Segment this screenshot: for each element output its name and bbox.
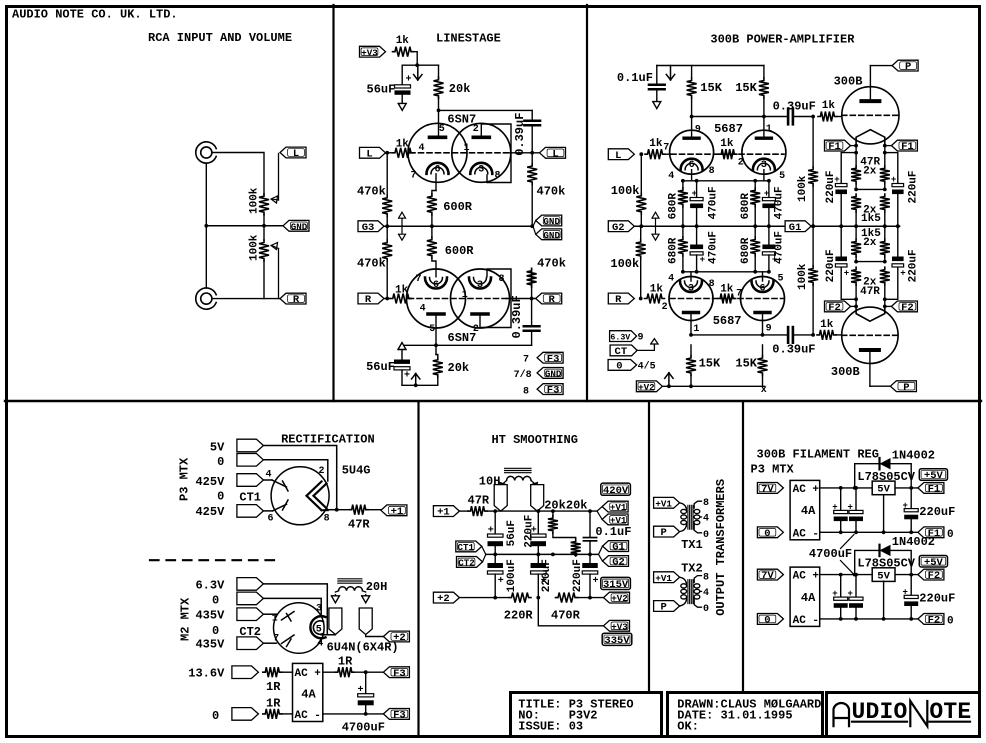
svg-text:1k: 1k [396,139,410,151]
svg-text:+V1: +V1 [655,498,672,509]
svg-text:G3: G3 [362,222,375,234]
svg-text:P: P [660,527,666,539]
svg-text:6: 6 [433,280,439,291]
svg-text:F3: F3 [393,710,406,722]
svg-text:4700uF: 4700uF [342,720,385,734]
svg-text:100k: 100k [797,175,809,202]
svg-text:220uF: 220uF [541,559,553,592]
svg-text:TX1: TX1 [681,538,703,552]
svg-text:220uF: 220uF [572,559,584,592]
svg-text:GND: GND [543,216,560,227]
svg-text:TX2: TX2 [681,562,703,576]
svg-text:1R: 1R [266,696,281,710]
svg-text:2x: 2x [863,237,877,249]
svg-text:220uF: 220uF [825,170,837,203]
svg-text:0: 0 [703,604,709,615]
svg-text:8: 8 [703,573,709,584]
svg-text:7: 7 [415,274,421,285]
svg-text:F2: F2 [828,302,841,314]
svg-text:1: 1 [693,324,699,335]
svg-text:425V: 425V [195,505,225,519]
svg-text:220uF: 220uF [524,515,536,548]
svg-text:0: 0 [212,624,219,638]
svg-text:5: 5 [777,274,783,285]
svg-text:1k: 1k [720,138,734,150]
svg-text:0: 0 [764,528,770,540]
svg-text:CT2: CT2 [458,558,475,569]
svg-text:6.3V: 6.3V [610,334,630,343]
svg-text:220uF: 220uF [919,592,955,606]
svg-text:F2: F2 [928,570,941,582]
svg-text:4/5: 4/5 [638,360,656,372]
svg-text:3: 3 [477,280,483,291]
svg-text:0: 0 [217,489,224,503]
svg-text:9: 9 [766,324,772,335]
svg-text:L: L [366,148,372,160]
svg-text:15K: 15K [699,357,721,371]
svg-text:RCA INPUT AND VOLUME: RCA INPUT AND VOLUME [148,31,292,45]
svg-text:5V: 5V [877,484,890,496]
svg-text:P: P [903,382,909,394]
svg-text:100k: 100k [610,257,639,271]
svg-text:425V: 425V [195,475,225,489]
svg-text:4A: 4A [801,504,816,518]
svg-text:7: 7 [410,171,416,182]
svg-text:R: R [293,294,300,306]
svg-text:3: 3 [478,164,484,175]
svg-text:680R: 680R [668,237,680,264]
svg-text:0.39uF: 0.39uF [510,295,524,338]
svg-text:470k: 470k [357,257,386,271]
svg-text:G1: G1 [789,222,802,234]
svg-text:20H: 20H [366,580,388,594]
svg-text:0.39uF: 0.39uF [772,343,815,357]
svg-text:100k: 100k [249,187,261,214]
svg-text:F3: F3 [547,385,560,397]
svg-text:100k: 100k [611,184,640,198]
svg-text:300B: 300B [834,75,863,89]
svg-text:4A: 4A [801,591,816,605]
svg-text:20k: 20k [566,499,588,513]
svg-text:1: 1 [766,124,772,135]
svg-text:L: L [293,148,299,160]
svg-text:2: 2 [473,124,479,135]
svg-text:4: 4 [668,274,674,285]
svg-text:5687: 5687 [714,122,743,136]
svg-text:600R: 600R [443,200,473,214]
svg-text:7V: 7V [761,570,774,582]
svg-text:8: 8 [324,514,330,525]
svg-text:4: 4 [668,171,674,182]
svg-text:0: 0 [212,709,219,723]
svg-text:LINESTAGE: LINESTAGE [436,32,501,46]
svg-text:P3 MTX: P3 MTX [178,457,192,501]
svg-text:220uF: 220uF [919,505,955,519]
svg-text:OUTPUT TRANSFORMERS: OUTPUT TRANSFORMERS [714,479,728,616]
svg-text:+: + [692,189,697,199]
svg-text:1k: 1k [649,138,663,150]
svg-text:1R: 1R [266,680,281,694]
svg-text:+5V: +5V [924,557,944,569]
svg-text:4: 4 [703,514,709,525]
svg-text:0: 0 [703,530,709,541]
svg-text:315V: 315V [603,579,629,591]
svg-text:470R: 470R [551,609,581,623]
svg-text:15K: 15K [700,81,722,95]
svg-text:L: L [552,148,558,160]
svg-text:4: 4 [265,470,271,481]
svg-text:4: 4 [317,639,323,650]
svg-text:100k: 100k [797,263,809,290]
svg-text:2x: 2x [863,166,877,178]
svg-text:ISSUE: 03: ISSUE: 03 [518,720,583,734]
svg-text:P: P [905,61,911,73]
svg-text:3: 3 [688,284,694,295]
svg-text:680R: 680R [740,237,752,264]
svg-text:F2: F2 [901,302,914,314]
svg-text:2: 2 [318,466,324,477]
svg-text:0: 0 [947,529,954,541]
svg-text:+V1: +V1 [655,573,672,584]
svg-text:435V: 435V [195,609,225,623]
svg-text:+: + [700,255,705,265]
svg-text:7: 7 [523,355,529,366]
svg-text:AC -: AC - [295,710,321,722]
svg-text:R: R [549,294,556,306]
svg-text:680R: 680R [740,193,752,220]
svg-text:4A: 4A [301,688,316,702]
svg-text:AC +: AC + [295,668,322,680]
svg-text:GND: GND [543,230,560,241]
svg-text:1k: 1k [822,100,836,112]
svg-text:5U4G: 5U4G [342,464,371,478]
svg-text:+1: +1 [391,506,404,518]
svg-text:8: 8 [498,274,504,285]
svg-text:0: 0 [616,361,622,373]
svg-text:5: 5 [779,171,785,182]
svg-text:AC +: AC + [793,571,820,583]
svg-text:1: 1 [272,614,278,625]
svg-text:F3: F3 [547,353,560,365]
svg-text:x: x [761,385,767,396]
svg-text:300B FILAMENT REG: 300B FILAMENT REG [757,448,879,462]
svg-text:15K: 15K [735,81,757,95]
svg-text:P3 MTX: P3 MTX [751,462,795,476]
svg-text:L78S05CV: L78S05CV [857,557,915,571]
svg-text:RECTIFICATION: RECTIFICATION [281,433,375,447]
svg-text:300B POWER-AMPLIFIER: 300B POWER-AMPLIFIER [710,33,855,47]
svg-text:0.1uF: 0.1uF [595,525,631,539]
svg-text:435V: 435V [195,638,225,652]
svg-text:CT1: CT1 [458,542,475,553]
svg-text:220uF: 220uF [825,249,837,282]
svg-text:+V2: +V2 [611,593,628,604]
svg-text:9: 9 [695,125,701,136]
svg-text:+2: +2 [437,593,450,605]
svg-text:7: 7 [736,289,742,300]
svg-text:5V: 5V [877,570,890,582]
svg-text:470k: 470k [537,185,566,199]
svg-text:6.3V: 6.3V [195,578,225,592]
svg-text:335V: 335V [604,635,630,647]
svg-text:470uF: 470uF [773,186,785,219]
svg-text:47R: 47R [860,286,880,298]
svg-text:56uF: 56uF [366,360,395,374]
svg-text:2: 2 [738,158,744,169]
svg-text:6U4N(6X4R): 6U4N(6X4R) [327,641,399,655]
svg-text:0.39uF: 0.39uF [513,113,527,156]
svg-text:1k: 1k [395,285,409,297]
svg-text:8: 8 [703,498,709,509]
svg-text:5V: 5V [210,440,225,454]
svg-text:1k: 1k [650,284,664,296]
svg-text:+5V: +5V [924,470,944,482]
svg-text:AC +: AC + [793,484,820,496]
svg-text:56uF: 56uF [506,520,518,546]
svg-text:20k: 20k [449,82,471,96]
svg-text:0: 0 [217,455,224,469]
svg-text:+V3: +V3 [361,47,378,58]
svg-text:470uF: 470uF [707,231,719,264]
svg-text:13.6V: 13.6V [188,667,225,681]
svg-text:G2: G2 [612,222,625,234]
svg-text:0.1uF: 0.1uF [617,71,653,85]
svg-text:7: 7 [663,143,669,154]
svg-text:+2: +2 [393,632,406,644]
svg-text:470k: 470k [537,257,566,271]
svg-text:1: 1 [463,143,469,154]
svg-text:6SN7: 6SN7 [448,331,477,345]
svg-text:220uF: 220uF [908,170,920,203]
svg-text:+: + [593,576,599,587]
svg-text:+: + [844,269,849,279]
svg-text:680R: 680R [668,193,680,220]
svg-text:+: + [488,526,494,537]
svg-text:5: 5 [429,324,435,335]
svg-text:+V1: +V1 [610,502,627,513]
svg-text:CT: CT [615,346,628,358]
svg-text:AC -: AC - [793,615,819,627]
svg-text:20k: 20k [544,499,566,513]
svg-text:+: + [406,75,412,86]
svg-text:8: 8 [523,387,529,398]
svg-text:R: R [615,294,622,306]
svg-text:5: 5 [439,124,445,135]
svg-text:0: 0 [764,615,770,627]
svg-text:7/8: 7/8 [514,369,532,381]
svg-text:2: 2 [662,302,668,313]
svg-text:0.39uF: 0.39uF [773,100,816,114]
svg-text:470uF: 470uF [707,186,719,219]
svg-text:F1: F1 [901,141,914,153]
svg-text:F2: F2 [928,615,941,627]
svg-text:+: + [900,269,905,279]
svg-text:1k: 1k [720,284,734,296]
svg-text:47R: 47R [468,493,490,507]
svg-text:M2 MTX: M2 MTX [179,597,193,641]
svg-text:1: 1 [462,290,468,301]
svg-text:F3: F3 [393,668,406,680]
svg-text:4: 4 [703,588,709,599]
svg-text:P: P [660,602,666,614]
svg-text:4700uF: 4700uF [809,547,852,561]
svg-text:GND: GND [545,369,562,380]
svg-text:6: 6 [759,284,765,295]
svg-text:+V3: +V3 [611,621,628,632]
svg-text:100k: 100k [249,234,261,261]
svg-text:8: 8 [709,279,715,290]
svg-text:G1: G1 [612,542,625,554]
svg-text:G2: G2 [612,557,625,569]
svg-text:+V2: +V2 [638,382,655,393]
svg-text:1k5: 1k5 [861,213,881,225]
svg-text:6: 6 [267,514,273,525]
svg-text:GND: GND [291,221,308,232]
svg-text:4: 4 [420,304,426,315]
svg-text:+1: +1 [437,507,450,519]
svg-text:56uF: 56uF [367,83,396,97]
svg-text:L78S05CV: L78S05CV [857,470,915,484]
svg-text:20k: 20k [448,361,470,375]
svg-text:4: 4 [418,143,424,154]
svg-text:420V: 420V [603,485,629,497]
svg-text:1k: 1k [820,319,834,331]
svg-text:470uF: 470uF [773,231,785,264]
svg-text:5: 5 [316,624,322,635]
svg-text:1k: 1k [396,35,410,47]
svg-text:+: + [764,189,769,199]
svg-text:R: R [365,294,372,306]
svg-text:1R: 1R [338,655,353,669]
svg-text:600R: 600R [445,244,475,258]
svg-text:3: 3 [316,604,322,615]
svg-text:100uF: 100uF [506,559,518,592]
svg-text:F1: F1 [828,141,841,153]
svg-text:OK:: OK: [677,720,699,734]
svg-text:300B: 300B [831,365,860,379]
svg-text:8: 8 [494,171,500,182]
svg-text:15K: 15K [735,357,757,371]
svg-text:L: L [615,150,621,162]
svg-text:220R: 220R [504,609,534,623]
svg-text:470k: 470k [357,185,386,199]
svg-text:8: 8 [709,166,715,177]
svg-text:5687: 5687 [713,314,742,328]
svg-text:220uF: 220uF [908,249,920,282]
svg-text:0: 0 [212,593,219,607]
svg-text:AC -: AC - [793,528,819,540]
svg-text:+: + [404,371,410,382]
svg-text:+: + [891,175,896,185]
svg-text:HT SMOOTHING: HT SMOOTHING [492,433,578,447]
svg-text:47R: 47R [348,518,370,532]
svg-text:7: 7 [273,634,279,645]
svg-text:F1: F1 [928,484,941,496]
svg-text:CT1: CT1 [239,491,261,505]
svg-text:7V: 7V [761,484,774,496]
svg-text:1N4002: 1N4002 [892,448,935,462]
svg-text:0: 0 [947,616,954,628]
svg-text:AUDIO NOTE CO. UK. LTD.: AUDIO NOTE CO. UK. LTD. [12,8,178,22]
svg-text:9: 9 [638,333,644,344]
svg-text:+: + [498,576,504,587]
svg-text:1N4002: 1N4002 [892,535,935,549]
